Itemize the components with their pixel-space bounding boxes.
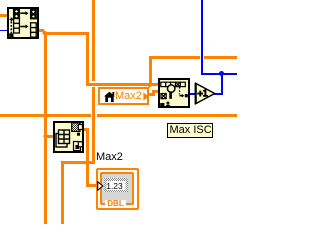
junction on y84 wire feeding riser	[148, 83, 153, 88]
read-direction arrow	[143, 92, 149, 101]
wire: index input into Split 1D Array (blue, from left edge)	[0, 30, 9, 32]
terminal: Max2 numeric indicator (DBL)	[96, 168, 140, 210]
local variable Max2 (read)	[98, 87, 149, 105]
function Search 1D Array	[158, 78, 190, 108]
wire: long horizontal y115 left segment	[0, 114, 91, 117]
numeric display frame (dithered)	[104, 178, 128, 192]
junction on x45 vertical at Index Array input	[43, 134, 48, 139]
dotted output path	[178, 87, 180, 95]
first subarray: 2 filled cells	[31, 9, 37, 18]
junction blue at x221.5	[219, 71, 224, 76]
free label Max ISC	[167, 123, 213, 138]
wire: long vertical x93.5 lower segment to corner y162	[92, 87, 95, 164]
wire: local variable output riser	[152, 90, 155, 96]
wire: long vertical x93.5 upper segment from top edge	[92, 0, 95, 81]
wire: riser x150 from y56 to y84	[149, 56, 152, 85]
start index glyph	[160, 103, 164, 107]
wire: Split output stub	[37, 29, 44, 32]
wire: top horizontal y57 left segment	[149, 56, 200, 59]
local variable name	[115, 90, 142, 102]
wire: stub into Max2 terminal y185.5	[86, 184, 99, 187]
function Index Array	[53, 121, 84, 153]
element output glyph	[74, 141, 81, 150]
free label Max2	[96, 151, 123, 163]
index marker plus	[10, 18, 14, 22]
arrows	[20, 12, 25, 14]
wire: array input into Split 1D Array (orange, from left edge)	[0, 14, 9, 17]
function Split 1D Array	[7, 7, 39, 39]
wire: horizontal y162 from x61 to x95	[61, 161, 96, 164]
DBL type tag	[105, 200, 126, 208]
wire: vertical branch x45 down to bottom edge	[44, 32, 47, 225]
dotted index line	[10, 22, 12, 33]
input array column: 2 filled + 3 empty cells	[14, 9, 20, 19]
wire: blue stub Search output to +1 input	[189, 93, 195, 95]
2D array grid glyph (doubled)	[56, 133, 67, 147]
numeric value 1.23	[106, 182, 123, 191]
junction at Split output branch	[43, 30, 48, 35]
wire: blue horizontal y73.5 to right edge	[201, 73, 237, 75]
magnifier	[167, 84, 174, 91]
wire: local variable output stub	[148, 93, 155, 96]
wire: Index Array output stub right	[83, 128, 89, 131]
wire: blue vertical x221.5 down to y94.7	[221, 73, 223, 95]
wire: blue vertical from top edge x202	[201, 0, 203, 75]
wire: long horizontal y115 right segment (gap at x93 vertical)	[97, 114, 238, 117]
function increment (+1)	[194, 82, 216, 105]
wire: horizontal y84 from x85 to Search array input	[86, 83, 159, 86]
wire: vertical x87 from y128 down to y187	[86, 128, 89, 188]
wire: Split output horizontal toward x87	[44, 32, 89, 35]
wire: vertical x87 from y32 down to y85	[86, 32, 89, 86]
element input glyph	[161, 93, 166, 98]
array strip	[160, 82, 185, 86]
second subarray: 3 empty cells	[31, 23, 37, 37]
wire: top horizontal y57 right segment (gap at blue crossing)	[204, 56, 237, 59]
house glyph	[104, 91, 115, 103]
wire: vertical x62 down to bottom edge	[61, 161, 64, 224]
row output glyph (dithered)	[72, 122, 80, 131]
wire: stub into Index Array input	[44, 135, 54, 138]
wire: blue horizontal into +1 tip	[213, 93, 223, 95]
wire: into Search element input	[152, 90, 159, 93]
indicator direction glyph	[97, 181, 104, 191]
